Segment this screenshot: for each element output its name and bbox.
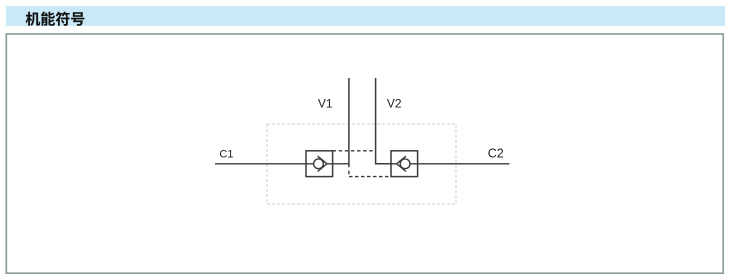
pilot line (dashed) from V1 stub down and right to right valve bottom corner (349, 171, 391, 177)
svg-text:V1: V1 (318, 97, 333, 111)
wire stubs across CV2 (391, 163, 418, 165)
wire V2 vertical and elbow into right valve (376, 78, 391, 164)
pilot line (dashed) from left valve top edge to V2 (333, 150, 376, 152)
svg-text:V2: V2 (387, 97, 402, 111)
wire through left valve body to node V1 (306, 163, 349, 165)
header bar (6, 6, 725, 26)
wire through right valve body to C2 (391, 163, 510, 165)
check valve CV1 poppet (ball) (314, 159, 324, 169)
svg-text:C1: C1 (219, 149, 233, 161)
wire stubs across CV1 (306, 163, 333, 165)
wire C1 horizontal into left valve (215, 163, 306, 165)
check valve CV2 seat (397, 156, 406, 171)
check valve CV2 body (391, 151, 418, 177)
svg-text:C2: C2 (488, 147, 504, 161)
check valve CV1 body (306, 151, 333, 177)
pilot enclosure (light dashed rectangle) (267, 124, 456, 204)
wire V1 vertical (with stub below junction) (348, 78, 350, 167)
check valve CV2 poppet (ball) (400, 159, 410, 169)
check valve CV1 seat (318, 156, 327, 171)
